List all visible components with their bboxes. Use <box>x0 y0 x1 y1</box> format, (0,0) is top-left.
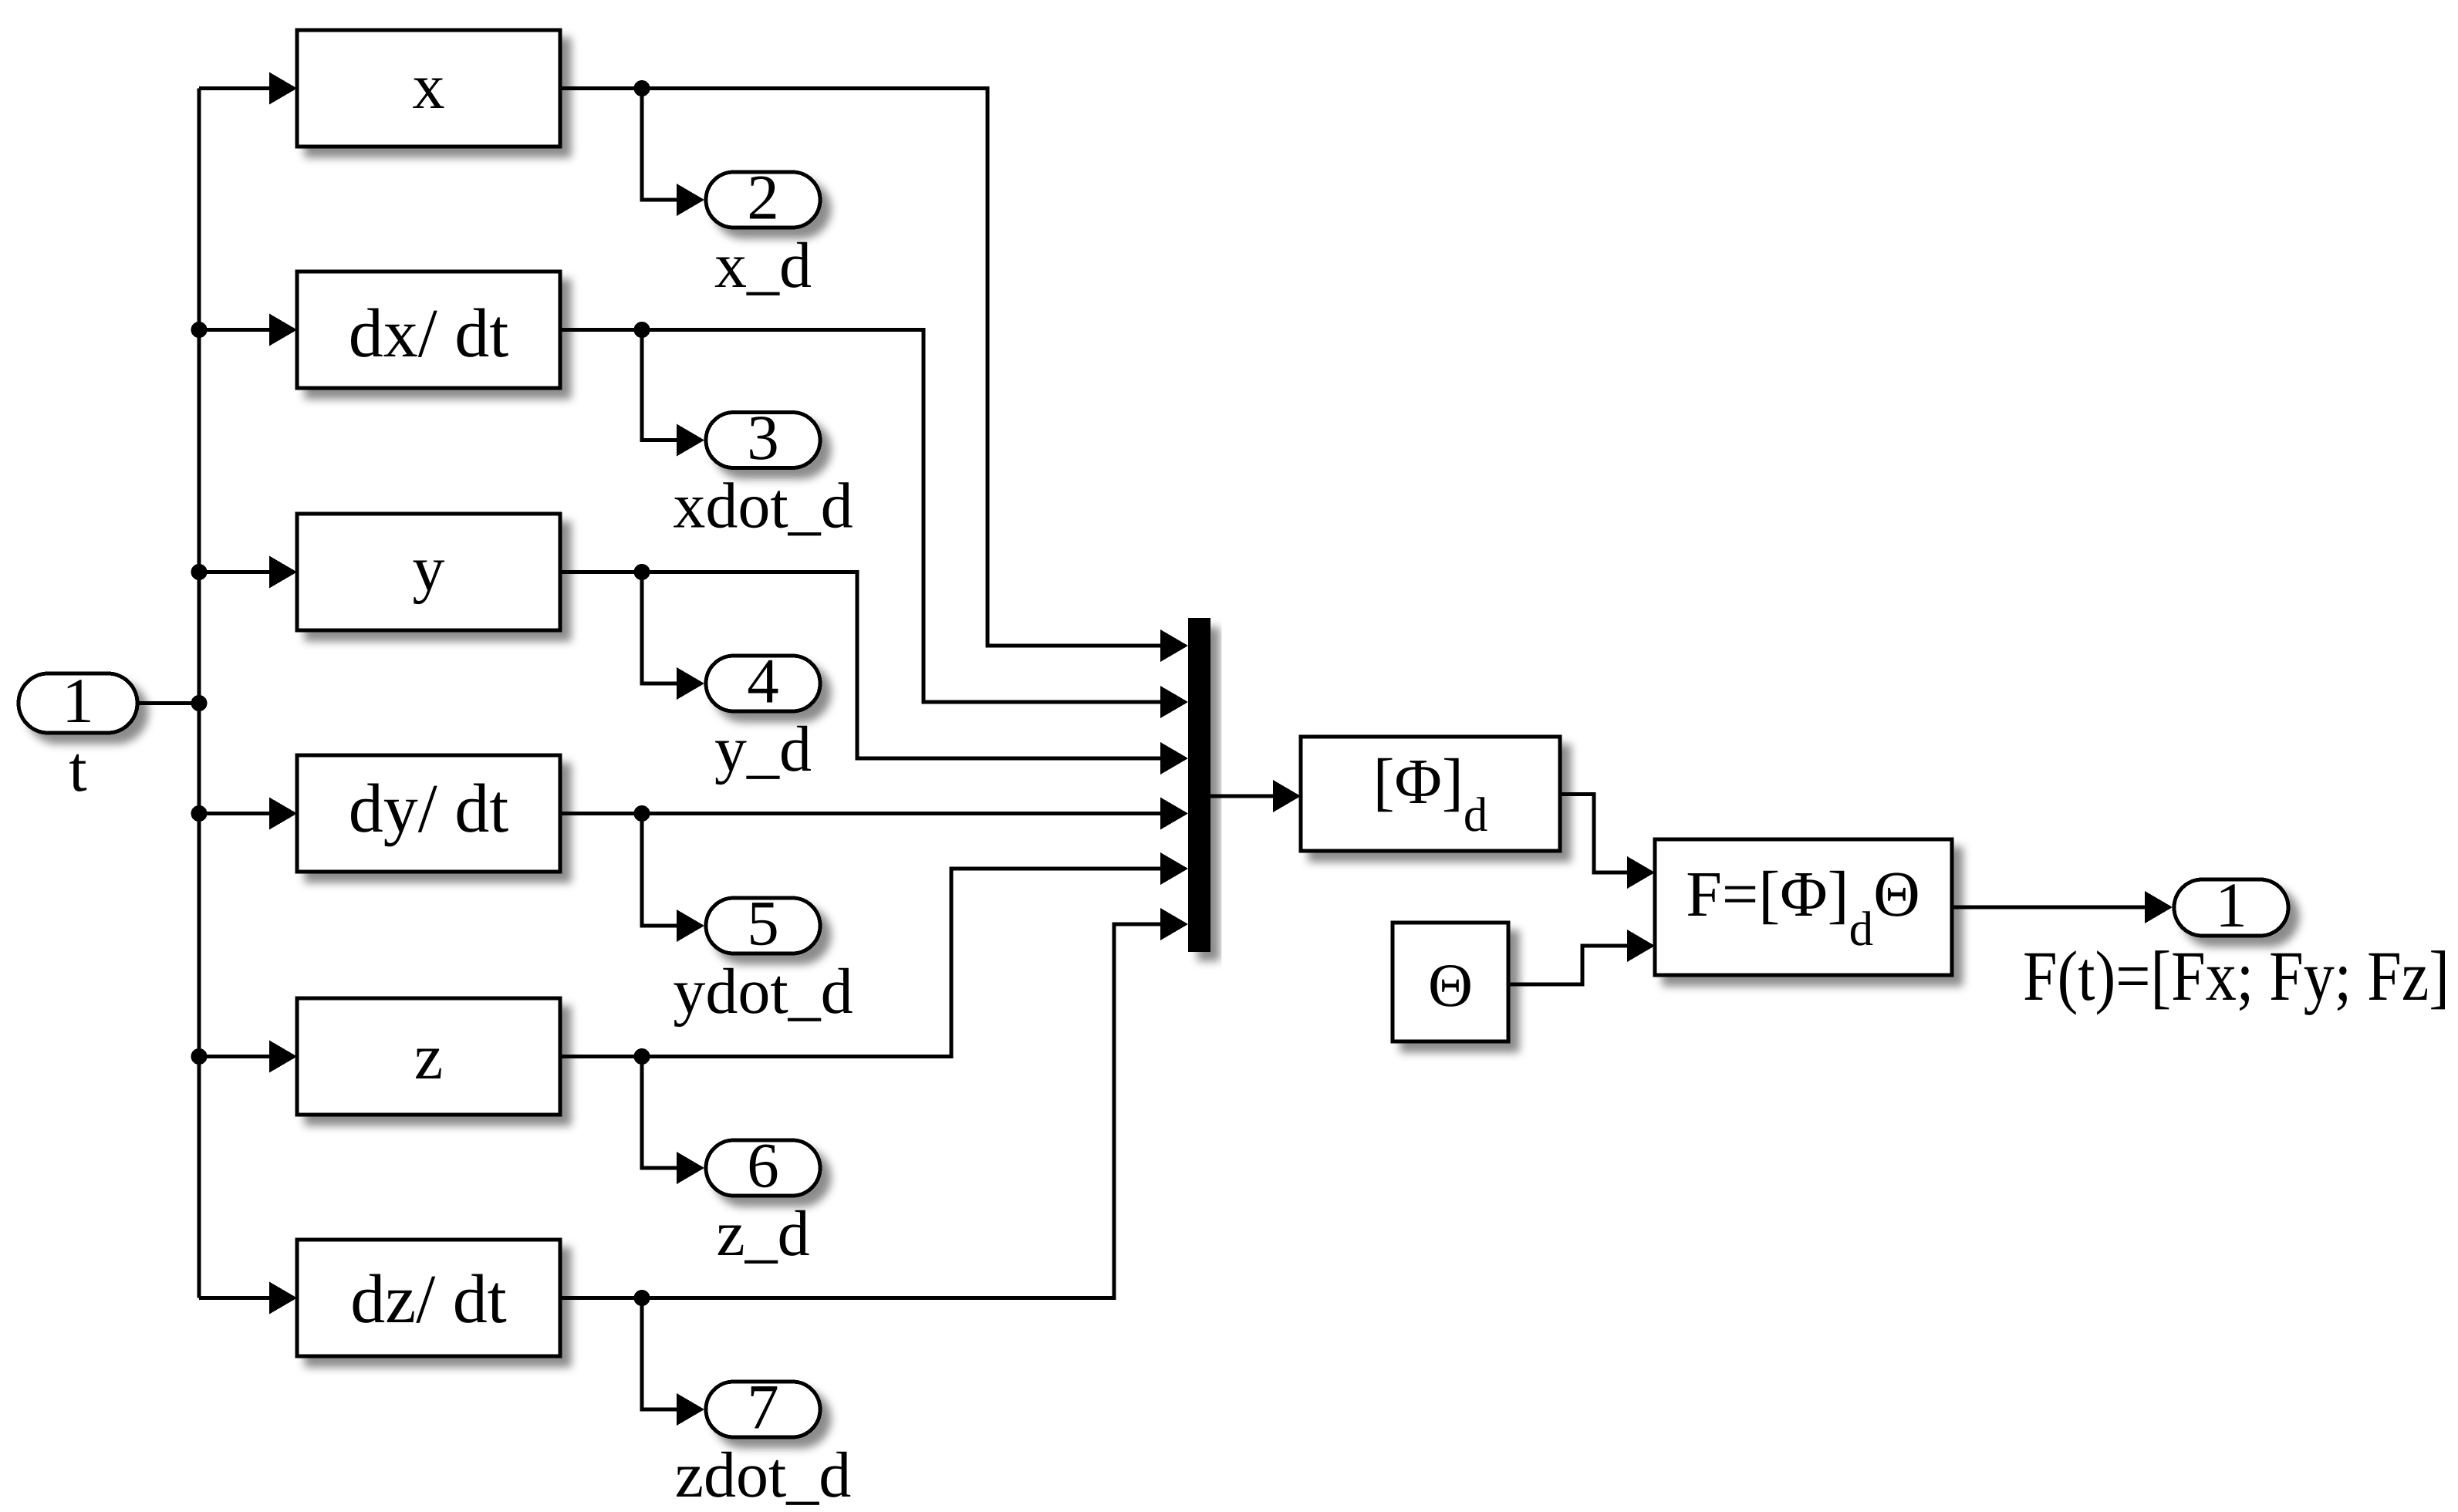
wire: Inport t to trunk <box>137 701 199 705</box>
wire: mux output to [Phi]_d <box>1210 795 1275 798</box>
svg-text:1: 1 <box>2215 869 2247 940</box>
wire: trunk branch to dz/dt <box>199 1296 272 1300</box>
svg-text:4: 4 <box>747 646 779 717</box>
wire: branch to outport 7 <box>642 1298 678 1410</box>
svg-text:dz/ dt: dz/ dt <box>350 1261 506 1338</box>
wire: branch to outport 3 <box>642 330 678 440</box>
block dz/dt <box>297 1240 560 1356</box>
junction on trunk y=911.5 <box>191 695 208 711</box>
block x <box>297 30 560 147</box>
junction after y <box>634 564 650 580</box>
port oval Outport 2 <box>706 162 820 233</box>
port oval Outport 3 <box>706 402 820 473</box>
port oval Outport 6 <box>706 1130 820 1201</box>
svg-text:1: 1 <box>62 665 94 736</box>
svg-text:dx/ dt: dx/ dt <box>349 295 509 372</box>
junction after x <box>634 80 650 96</box>
junction on trunk y=427.5 <box>191 322 208 338</box>
wire: F output to Outport 1 <box>1952 906 2145 910</box>
wire: branch to outport 2 <box>642 89 678 201</box>
junction after dz/dt <box>634 1290 650 1306</box>
junction on trunk y=741.5 <box>191 564 208 580</box>
port oval Outport 7 <box>706 1372 820 1443</box>
wire: trunk branch to z <box>199 1055 272 1058</box>
svg-text:x: x <box>413 51 445 123</box>
svg-text:3: 3 <box>747 402 779 473</box>
wire: x output to mux input 1 <box>560 89 1162 646</box>
wire: dz/dt output to mux input 6 <box>560 924 1162 1298</box>
svg-text:y_d: y_d <box>714 714 812 785</box>
svg-text:zdot_d: zdot_d <box>675 1439 852 1511</box>
block [Phi]_d <box>1301 737 1560 851</box>
svg-text:z_d: z_d <box>716 1198 809 1270</box>
svg-text:5: 5 <box>747 888 779 959</box>
wire: y output to mux input 3 <box>560 572 1162 759</box>
wire: z output to mux input 5 <box>560 869 1162 1057</box>
wire: Theta output to F block input 2 <box>1508 946 1628 984</box>
wire: branch to outport 6 <box>642 1057 678 1169</box>
port oval Outport 1 <box>2174 869 2288 940</box>
mux <box>1188 618 1210 952</box>
svg-text:F(t)=[Fx; Fy; Fz]: F(t)=[Fx; Fy; Fz] <box>2023 937 2450 1015</box>
svg-text:7: 7 <box>747 1372 779 1443</box>
svg-text:t: t <box>69 734 86 805</box>
block dy/dt <box>297 755 560 872</box>
wire: trunk branch to dx/dt <box>199 328 272 332</box>
wire: branch to outport 5 <box>642 814 678 926</box>
block F=[Phi]_d Theta <box>1655 839 1952 975</box>
port oval Outport 4 <box>706 646 820 717</box>
svg-text:z: z <box>414 1021 443 1093</box>
junction after z <box>634 1048 650 1065</box>
svg-text:6: 6 <box>747 1130 779 1201</box>
block Theta <box>1393 923 1508 1041</box>
svg-text:xdot_d: xdot_d <box>673 471 853 542</box>
block y <box>297 514 560 630</box>
port oval Inport 1 <box>19 665 137 736</box>
wire: [Phi]_d output to F block input 1 <box>1560 795 1628 873</box>
junction after dy/dt <box>634 805 650 822</box>
block dx/dt <box>297 272 560 388</box>
wire: trunk branch to dy/dt <box>199 812 272 815</box>
svg-text:x_d: x_d <box>714 230 812 302</box>
svg-text:ydot_d: ydot_d <box>673 956 853 1028</box>
svg-text:y: y <box>413 533 445 605</box>
junction after dx/dt <box>634 322 650 338</box>
wire: trunk branch to y <box>199 570 272 574</box>
wire: dy/dt output to mux input 4 <box>560 812 1162 815</box>
wire: trunk branch to x <box>199 86 272 90</box>
block z <box>297 998 560 1115</box>
svg-text:2: 2 <box>747 162 779 233</box>
svg-text:Θ: Θ <box>1428 952 1473 1020</box>
junction on trunk y=1369.5 <box>191 1048 208 1065</box>
wire: trunk vertical <box>198 89 201 1298</box>
junction on trunk y=1054.5 <box>191 805 208 822</box>
wire: dx/dt output to mux input 2 <box>560 330 1162 703</box>
svg-text:dy/ dt: dy/ dt <box>349 771 509 847</box>
port oval Outport 5 <box>706 888 820 959</box>
wire: branch to outport 4 <box>642 572 678 684</box>
